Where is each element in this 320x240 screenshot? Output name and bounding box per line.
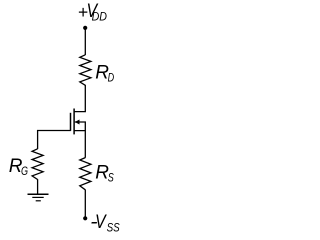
wire RD to drain xyxy=(74,85,86,112)
resistor RD xyxy=(80,55,91,86)
svg-text:SS: SS xyxy=(107,222,121,235)
svg-text:D: D xyxy=(108,73,115,85)
transistor Q1 gate bar xyxy=(70,113,72,131)
transistor Q1 channel bar xyxy=(73,109,75,135)
wire VDD to RD xyxy=(84,28,86,55)
wire RS to VSS xyxy=(84,190,86,219)
wire RG to ground xyxy=(37,179,39,194)
svg-text:G: G xyxy=(21,166,28,178)
source wire xyxy=(74,131,86,158)
transistor Q1 body line xyxy=(75,122,86,131)
gate wire to RG xyxy=(38,131,71,150)
ground bar 2 xyxy=(32,196,43,198)
ground bar 3 xyxy=(36,200,41,202)
resistor RG xyxy=(32,149,43,180)
svg-text:S: S xyxy=(108,172,114,184)
transistor Q1 arrow xyxy=(75,120,80,125)
ground bar 1 xyxy=(28,193,49,195)
node VDD dot xyxy=(83,26,87,30)
svg-text:DD: DD xyxy=(92,11,107,23)
resistor RS xyxy=(80,158,91,190)
node VSS dot xyxy=(83,216,87,220)
